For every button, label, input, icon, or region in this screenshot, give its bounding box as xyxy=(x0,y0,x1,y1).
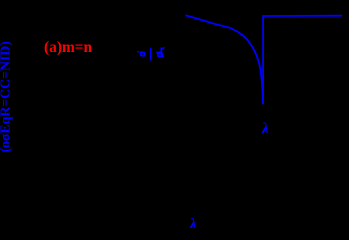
svg-text:λ: λ xyxy=(261,121,269,137)
annotation right glyph (d with stroke) xyxy=(156,47,165,58)
svg-text:λ: λ xyxy=(189,216,197,228)
y-axis label (rotated blue text) xyxy=(0,43,14,153)
annotation left glyph (o with top-left bar) xyxy=(137,51,145,57)
subplot label (a)m=n xyxy=(44,40,92,54)
annotation vertical bar xyxy=(150,48,152,61)
resonance curve xyxy=(186,15,343,103)
